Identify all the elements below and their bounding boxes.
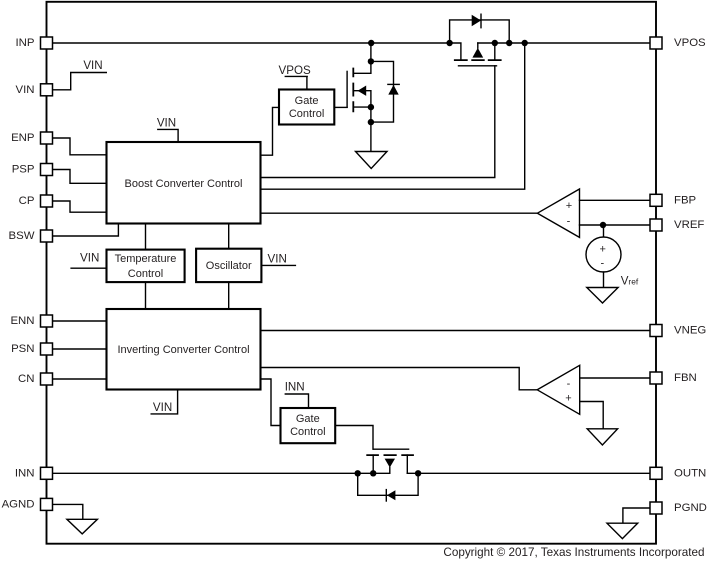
svg-text:OUTN: OUTN xyxy=(674,468,706,480)
net label VIN stub above boost control xyxy=(158,129,178,142)
pin FBP xyxy=(650,194,662,206)
node diode D2 anode dot on rail xyxy=(446,40,452,46)
wire PGND to ground xyxy=(623,508,650,523)
wire CP to boost control xyxy=(53,201,107,212)
node Q1 diode bottom junction dot xyxy=(368,119,374,125)
wire PSP to boost control xyxy=(53,170,107,184)
ground FBN comparator xyxy=(587,429,617,445)
svg-text:VIN: VIN xyxy=(16,84,35,96)
block oscillator xyxy=(196,249,261,282)
net label INN stub above gate control bottom xyxy=(285,394,308,408)
diode D1 branch wire xyxy=(371,61,394,122)
wire INP rail left segment xyxy=(53,43,461,60)
svg-text:Control: Control xyxy=(290,426,325,438)
diode D3 xyxy=(387,490,396,500)
svg-text:-: - xyxy=(600,258,604,270)
transistor Q3 channel dashes xyxy=(367,454,413,456)
svg-text:Copyright © 2017, Texas Instru: Copyright © 2017, Texas Instruments Inco… xyxy=(443,546,704,559)
svg-text:-: - xyxy=(567,378,571,390)
svg-text:INP: INP xyxy=(16,37,35,49)
ground AGND xyxy=(67,519,98,534)
pin PSN xyxy=(41,343,53,355)
node Q1 drain-diode junction dot xyxy=(368,58,374,64)
svg-text:VIN: VIN xyxy=(157,117,176,130)
svg-text:Gate: Gate xyxy=(296,413,320,425)
pin CP xyxy=(41,195,53,207)
diode D1 xyxy=(388,85,398,95)
svg-text:CN: CN xyxy=(18,373,34,385)
svg-text:INN: INN xyxy=(15,468,35,480)
pin INP xyxy=(41,37,53,49)
pin FBN xyxy=(650,372,662,384)
pin VNEG xyxy=(650,325,662,337)
svg-text:Oscillator: Oscillator xyxy=(206,260,252,272)
net label VIN stub at VIN pin xyxy=(53,73,107,90)
svg-text:PSN: PSN xyxy=(11,343,34,355)
pin VREF xyxy=(650,219,662,231)
pin AGND xyxy=(41,498,53,510)
net label VPOS stub xyxy=(285,76,307,89)
wire PSN to inverting control xyxy=(53,348,107,350)
transistor Q3 gate bar xyxy=(374,448,409,450)
wire gate control bottom to Q3 gate xyxy=(335,426,373,450)
node Q2 source dot xyxy=(492,40,498,46)
svg-text:CP: CP xyxy=(19,195,35,207)
svg-text:AGND: AGND xyxy=(2,499,35,511)
wire Vref to ground xyxy=(603,272,605,288)
wire VPOS rail right segment xyxy=(478,42,650,44)
block temperature control xyxy=(107,250,185,283)
wire boost to temperature control xyxy=(145,224,147,250)
ground boost switch xyxy=(356,152,388,169)
diode D2 xyxy=(472,15,481,27)
pin ENP xyxy=(41,132,53,144)
wire comparator output to boost control xyxy=(261,212,538,214)
node D3 right dot xyxy=(415,470,421,476)
node D3 left dot xyxy=(355,470,361,476)
node Q1 source junction dot xyxy=(368,104,374,110)
wire AGND to ground xyxy=(53,504,83,519)
transistor Q1 body arrow xyxy=(353,91,371,107)
pin PGND xyxy=(650,502,662,514)
wire CN to inverting control xyxy=(53,378,107,380)
svg-text:BSW: BSW xyxy=(9,230,35,242)
svg-text:Boost Converter Control: Boost Converter Control xyxy=(125,178,243,190)
transistor Q1 boost switch gate plate xyxy=(346,71,348,107)
wire FBP to comparator xyxy=(580,199,651,201)
wire temperature control to inverting control xyxy=(145,282,147,309)
node switch-drain junction dot on rail xyxy=(368,40,374,46)
svg-text:VIN: VIN xyxy=(268,253,287,266)
pin VPOS xyxy=(650,37,662,49)
transistor Q2 body arrow xyxy=(477,43,479,48)
transistor Q2 rectifier PMOS plates xyxy=(455,59,501,61)
wire VPOS feedback to boost control xyxy=(261,43,525,189)
block boost converter control xyxy=(107,142,261,224)
svg-text:VIN: VIN xyxy=(83,59,102,72)
svg-text:+: + xyxy=(565,393,571,405)
svg-text:ENN: ENN xyxy=(10,315,34,327)
svg-text:VIN: VIN xyxy=(153,401,172,414)
transistor Q3 left terminal xyxy=(372,455,374,473)
wire oscillator to inverting control xyxy=(228,282,230,309)
wire boost control to gate control xyxy=(261,107,280,155)
pin ENN xyxy=(41,315,53,327)
pin VIN xyxy=(41,84,53,96)
block inverting converter control xyxy=(107,309,261,390)
diode D2 bypass wire xyxy=(450,20,510,43)
wire VNEG from inverting control xyxy=(261,330,651,332)
diode D3 bypass wire xyxy=(358,473,418,495)
pin INN xyxy=(41,467,53,479)
svg-text:VNEG: VNEG xyxy=(674,325,706,337)
svg-text:Temperature: Temperature xyxy=(115,253,177,265)
voltage source Vref xyxy=(586,237,621,272)
pin BSW xyxy=(41,230,53,242)
transistor Q2 right terminal xyxy=(494,43,496,60)
svg-text:VPOS: VPOS xyxy=(674,37,706,49)
svg-text:INN: INN xyxy=(285,381,305,394)
net label VIN stub left of temperature control xyxy=(71,267,106,269)
svg-text:Gate: Gate xyxy=(295,95,319,107)
svg-text:+: + xyxy=(599,244,605,256)
svg-text:Control: Control xyxy=(128,268,163,280)
wire INN rail left segment xyxy=(53,472,390,474)
svg-text:+: + xyxy=(566,200,572,212)
node feedback tap dot xyxy=(522,40,528,46)
svg-text:VPOS: VPOS xyxy=(278,64,310,77)
svg-text:VREF: VREF xyxy=(674,219,704,231)
wire inverting control to gate control bottom xyxy=(261,379,281,426)
wire FBN to comparator xyxy=(580,377,650,379)
wire ENP to boost control xyxy=(53,138,107,155)
svg-text:Inverting Converter Control: Inverting Converter Control xyxy=(117,344,249,356)
wire VREF to comparator xyxy=(580,224,651,226)
wire BSW to boost control xyxy=(53,224,119,237)
net label VIN stub right of oscillator xyxy=(261,264,295,266)
node Q3 source dot xyxy=(370,470,376,476)
transistor Q1 source stub xyxy=(353,106,371,108)
svg-text:FBN: FBN xyxy=(674,372,697,384)
wire boost to oscillator xyxy=(228,224,230,249)
svg-text:Control: Control xyxy=(289,108,324,120)
svg-text:PGND: PGND xyxy=(674,502,707,514)
svg-text:PSP: PSP xyxy=(12,164,35,176)
transistor Q1 channel dashes xyxy=(352,69,354,112)
wire inverting control to FBN comparator xyxy=(261,368,538,390)
wire Q1 source to ground xyxy=(370,107,372,151)
transistor Q3 body arrow xyxy=(385,459,395,468)
voltage source Vref wire xyxy=(603,225,605,237)
transistor Q3 right terminal xyxy=(406,455,408,473)
svg-text:Vref: Vref xyxy=(621,275,639,288)
ground PGND xyxy=(607,523,638,538)
wire OUTN rail right segment xyxy=(407,472,650,474)
block gate control top xyxy=(279,90,334,125)
transistor Q1 drain stub xyxy=(353,43,371,73)
svg-text:VIN: VIN xyxy=(80,252,99,265)
op-amp U2 inverting comparator xyxy=(537,365,580,414)
ground Vref xyxy=(587,288,618,304)
block gate control bottom xyxy=(281,408,336,443)
wire ENN to inverting control xyxy=(53,320,107,322)
svg-text:FBP: FBP xyxy=(674,195,696,207)
transistor Q2 gate bar xyxy=(459,65,497,67)
pin CN xyxy=(41,373,53,385)
pin PSP xyxy=(41,164,53,176)
svg-text:ENP: ENP xyxy=(11,132,34,144)
wire Q2 gate to boost control xyxy=(261,66,495,178)
op-amp U1 boost comparator xyxy=(537,189,579,237)
svg-text:-: - xyxy=(567,216,571,228)
net label VIN stub below inverting control xyxy=(151,390,177,414)
wire gate control to Q1 gate xyxy=(334,106,347,108)
node D2 cathode dot xyxy=(506,40,512,46)
node VREF junction dot xyxy=(600,222,606,228)
pin OUTN xyxy=(650,467,662,479)
wire comparator plus input to ground xyxy=(580,402,604,429)
